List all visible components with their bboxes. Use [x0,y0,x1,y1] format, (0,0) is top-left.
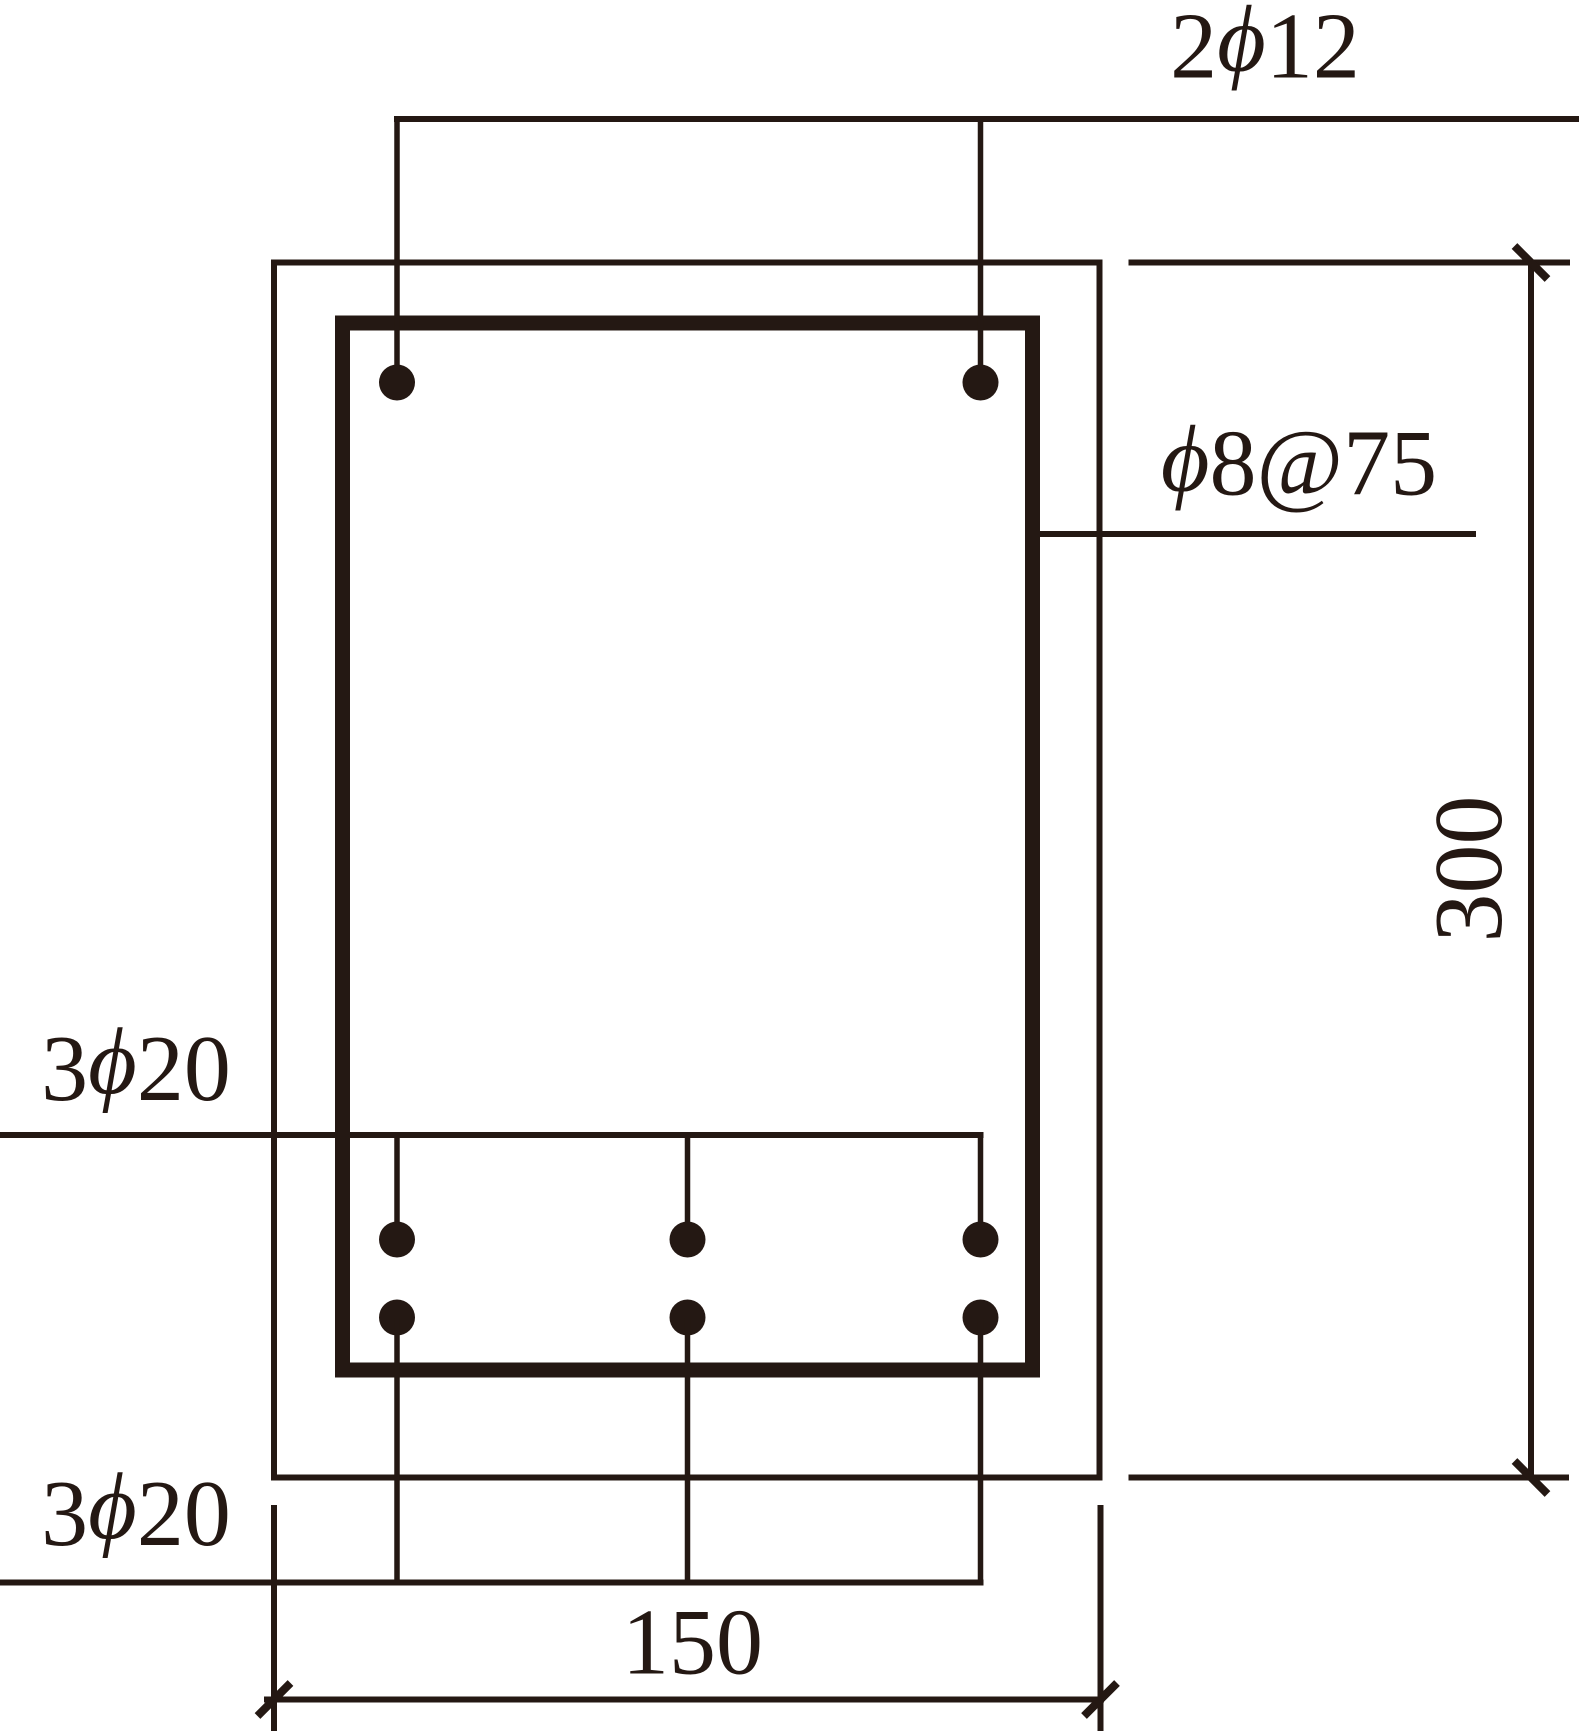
dimension 150 right tick [1084,1683,1117,1716]
dimension 150 left tick [258,1683,291,1716]
upper 3φ20 drop 2 [685,1135,691,1240]
bottom rebar row 3φ20 dot 1 [379,1300,415,1336]
leader 2φ12 right drop [978,119,984,382]
leader lower 3φ20 horizontal [0,1580,984,1586]
leader φ8@75 [1032,531,1476,537]
upper 3φ20 drop 3 [978,1135,984,1240]
svg-text:300: 300 [1415,796,1523,943]
leader 2φ12 left drop [394,119,400,382]
dimension 300 line [1528,263,1534,1478]
middle rebar row 3φ20 dot 1 [379,1222,415,1258]
svg-text:150: 150 [622,1591,763,1695]
middle rebar row 3φ20 dot 3 [963,1222,999,1258]
dimension 300 top extension [1129,260,1571,266]
stirrup (hoop) φ8 [343,323,1033,1370]
dimension 300 bottom extension [1129,1475,1570,1481]
svg-text:2ϕ12: 2ϕ12 [1170,0,1360,99]
upper 3φ20 drop 1 [394,1135,400,1240]
concrete section outline [274,263,1100,1478]
lower 3φ20 drop 2 [685,1318,691,1583]
leader 2φ12 horizontal [394,116,1579,122]
leader upper 3φ20 horizontal [0,1132,984,1138]
bottom rebar row 3φ20 dot 3 [963,1300,999,1336]
top rebar right 2φ12 [963,365,999,401]
middle rebar row 3φ20 dot 2 [670,1222,706,1258]
bottom rebar row 3φ20 dot 2 [670,1300,706,1336]
dimension 300 top tick [1515,246,1548,279]
dimension 150 right extension [1098,1505,1104,1731]
svg-text:3ϕ20: 3ϕ20 [41,1010,231,1121]
svg-text:3ϕ20: 3ϕ20 [41,1455,231,1566]
dimension 300 bottom tick [1515,1461,1548,1494]
dimension 150 left extension [271,1505,277,1731]
lower 3φ20 drop 1 [394,1318,400,1583]
top rebar left 2φ12 [379,365,415,401]
svg-text:ϕ8@75: ϕ8@75 [1161,408,1437,516]
lower 3φ20 drop 3 [978,1318,984,1583]
dimension 150 line [264,1697,1104,1703]
